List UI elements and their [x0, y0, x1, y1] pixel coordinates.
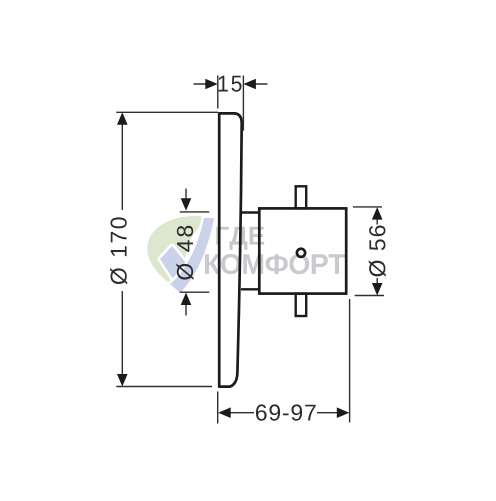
dimension 15: left arrow	[194, 79, 218, 90]
dimension 69-97: label	[256, 404, 316, 420]
dimension Ø170: top extension line	[116, 111, 218, 113]
dimension 15: label	[219, 76, 242, 92]
watermark blue checkmark	[160, 218, 214, 293]
dimension Ø48: bottom extension line	[180, 291, 210, 293]
dimension Ø48: bottom arrow	[181, 293, 192, 316]
dimension Ø170: label	[110, 217, 127, 284]
function unit box white fill	[259, 208, 346, 293]
dimension 15: left extension line	[217, 76, 219, 109]
function unit box outline	[259, 208, 346, 293]
dimension 69-97: left extension line	[217, 392, 219, 424]
dimension Ø48: top extension line	[180, 211, 210, 213]
dimension Ø48: label	[176, 226, 193, 280]
dimension Ø56: bottom extension line	[355, 295, 384, 297]
dimension Ø48: top arrow	[181, 189, 192, 211]
center screw circle	[297, 249, 305, 257]
dimension 69-97: left arrow	[218, 407, 254, 418]
escutcheon plate white fill	[219, 113, 242, 386]
bottom pipe stub	[296, 294, 307, 316]
escutcheon plate side view outline	[219, 113, 242, 386]
watermark text ГДЕ	[216, 227, 264, 250]
watermark text КОМФОРТ	[205, 254, 345, 274]
dimension Ø56: top extension line	[353, 206, 382, 208]
dimension Ø170: dimension line with arrows	[117, 112, 128, 386]
sleeve bottom line	[241, 288, 260, 290]
dimension Ø56: dimension line with arrows	[372, 207, 383, 295]
watermark leaf logo	[147, 216, 212, 293]
dimension 15: right arrow	[243, 79, 267, 90]
top pipe stub	[296, 186, 307, 208]
dimension 69-97: right extension line	[349, 299, 351, 423]
dimension Ø56: label	[369, 226, 386, 277]
dimension 15: right extension line	[242, 76, 244, 131]
sleeve top line	[241, 211, 260, 213]
dimension Ø170: bottom extension line	[116, 386, 212, 388]
dimension 69-97: right arrow	[317, 407, 349, 418]
